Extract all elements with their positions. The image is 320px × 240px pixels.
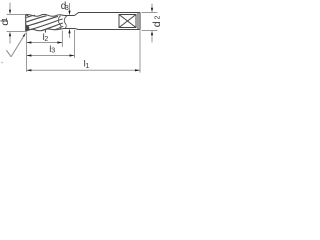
svg-text:1: 1 — [2, 17, 9, 21]
svg-text:3: 3 — [65, 5, 69, 12]
svg-text:2: 2 — [155, 16, 160, 20]
svg-text:d: d — [151, 21, 160, 27]
svg-text:1: 1 — [85, 63, 89, 70]
svg-text:2: 2 — [44, 36, 48, 43]
svg-text:3: 3 — [51, 48, 55, 55]
